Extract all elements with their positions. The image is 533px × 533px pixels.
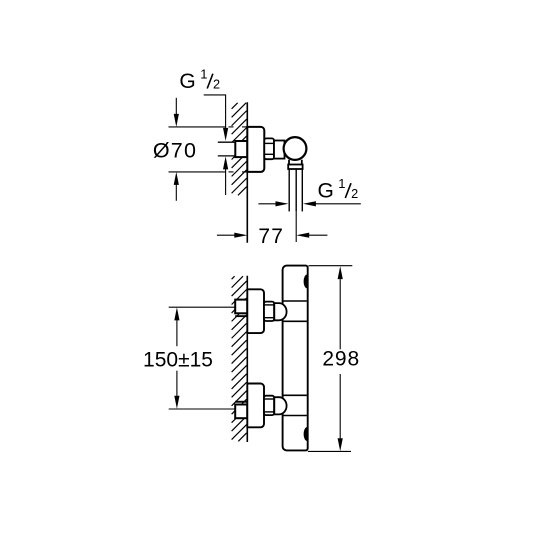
svg-text:1: 1 — [338, 176, 345, 191]
square bottom union — [235, 405, 247, 419]
dome top union — [274, 303, 286, 320]
escutcheon top union — [247, 289, 264, 333]
knob — [284, 137, 307, 160]
svg-text:2: 2 — [213, 77, 220, 91]
dim G12 right arrows — [258, 203, 360, 205]
ext line bottom union — [169, 408, 236, 410]
flange — [247, 127, 264, 172]
svg-text:77: 77 — [258, 225, 284, 248]
nut top union — [264, 302, 274, 321]
dome bottom union — [274, 397, 286, 414]
wall hatching bottom view — [232, 276, 247, 441]
valve body — [274, 141, 285, 159]
escutcheon bottom union — [247, 384, 264, 428]
dim 77 — [217, 234, 328, 236]
svg-text:298: 298 — [322, 348, 360, 371]
dim 150pm15 — [176, 320, 178, 396]
wall face line top view — [246, 102, 248, 243]
body seams — [284, 301, 307, 416]
hex nut top view — [264, 138, 274, 159]
svg-text:G: G — [179, 70, 195, 93]
svg-text:150±15: 150±15 — [143, 348, 213, 371]
supply pipe nipple — [218, 142, 236, 156]
neck and collar — [288, 160, 302, 169]
svg-text:1: 1 — [200, 66, 207, 81]
square top union — [235, 300, 247, 314]
square socket top view — [235, 141, 247, 157]
ext line top union — [169, 306, 236, 308]
svg-text:Ø70: Ø70 — [153, 138, 197, 162]
mixer body — [283, 266, 308, 451]
wall hatching top view — [232, 103, 247, 196]
wall face line bottom view — [246, 276, 248, 442]
dim 298 — [308, 266, 353, 452]
svg-text:G: G — [318, 180, 334, 203]
nut bottom union — [264, 396, 274, 415]
knob profile top — [304, 275, 307, 288]
dim G12 top bracket — [204, 95, 226, 195]
flange extension lines — [169, 127, 247, 172]
knob profile bottom — [304, 428, 307, 441]
svg-text:2: 2 — [351, 187, 358, 201]
shower hose pipe — [289, 169, 302, 211]
dim O70 — [175, 98, 177, 201]
